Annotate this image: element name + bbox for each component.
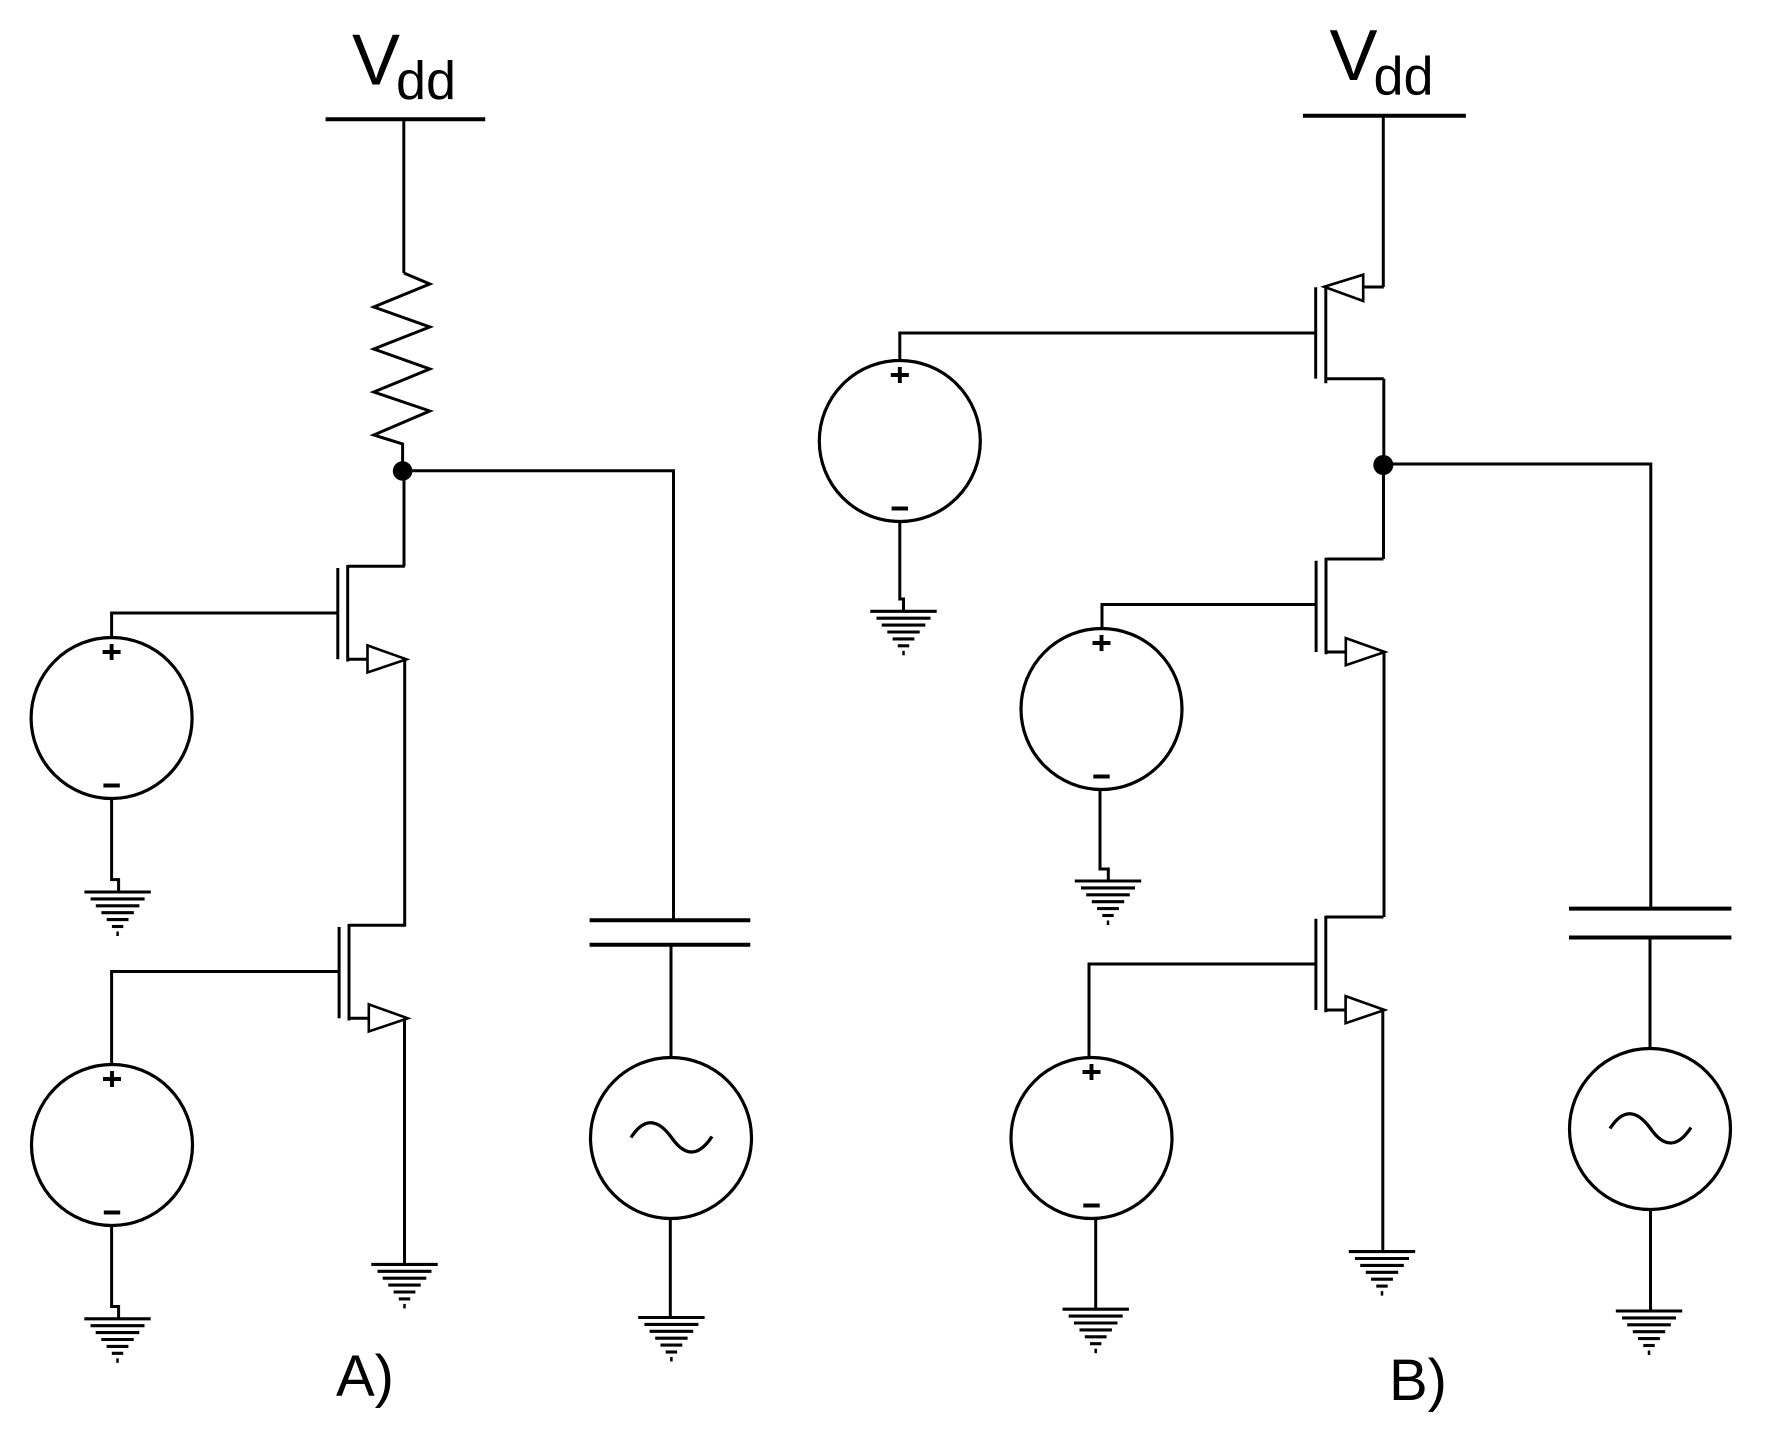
svg-text:dd: dd — [1374, 47, 1434, 107]
ground (vin A) — [638, 1318, 704, 1362]
wire output node to capacitor C2 — [1383, 464, 1651, 909]
ground (VSG) — [870, 611, 936, 655]
wire M2 source to ground — [403, 1018, 406, 1264]
power rail Vdd (circuit A) — [326, 117, 486, 121]
wire M5 source to ground — [1381, 1010, 1384, 1252]
voltage source VG1 — [31, 638, 192, 799]
wire M1 source to M2 drain — [403, 659, 406, 925]
power rail Vdd (circuit B) — [1303, 114, 1466, 118]
voltage source VG2 — [32, 1065, 193, 1226]
ground (VG4) — [1063, 1309, 1129, 1353]
voltage source VG3 — [1021, 629, 1182, 790]
wire output node to M4 drain — [1382, 465, 1385, 559]
wire M3 gate to VSG — [900, 333, 1316, 361]
ground (VG3) — [1075, 881, 1141, 925]
wire C2 to AC source vin — [1649, 938, 1652, 1049]
ground (M2 source) — [371, 1264, 437, 1308]
svg-text:dd: dd — [396, 51, 456, 111]
voltage source VSG — [819, 361, 980, 522]
transistor M5 (NMOS) — [1316, 916, 1385, 1024]
transistor M2 (NMOS) — [339, 924, 408, 1032]
wire M5 gate to VG4 — [1089, 964, 1316, 1058]
wire output node to M1 drain — [403, 471, 406, 566]
capacitor C2 — [1569, 907, 1731, 911]
ground (vin B) — [1616, 1311, 1682, 1355]
wire M4 gate to VG3 — [1102, 605, 1316, 629]
transistor M1 (NMOS) — [338, 565, 407, 673]
capacitor C1 — [590, 918, 751, 922]
svg-text:V: V — [352, 21, 400, 101]
wire Vdd rail to M3 source — [1382, 116, 1385, 287]
wire VG2 to ground — [112, 1226, 119, 1319]
wire vin to ground (circuit B) — [1649, 1210, 1652, 1312]
wire M2 gate to VG2 — [112, 972, 339, 1065]
wire output node to capacitor C1 — [403, 471, 674, 921]
node Vout (circuit B) — [1373, 455, 1393, 475]
ground (VG1) — [84, 892, 150, 936]
wire M3 drain to output node — [1382, 379, 1385, 465]
wire VSG to ground — [900, 522, 904, 612]
wire VG3 to ground — [1100, 789, 1108, 881]
wire vin to ground (circuit A) — [669, 1219, 672, 1318]
wire C1 to AC source vin — [670, 945, 673, 1058]
svg-text:A): A) — [336, 1344, 394, 1409]
transistor M4 (NMOS) — [1316, 558, 1385, 666]
wire M4 source to M5 drain — [1383, 652, 1386, 917]
node Vout (circuit A) — [393, 461, 413, 481]
wire VG4 to ground — [1094, 1218, 1097, 1310]
wire VG1 to ground — [112, 799, 119, 893]
AC source vin (circuit A) — [591, 1058, 752, 1219]
ground (M5 source) — [1349, 1252, 1415, 1296]
wire Vdd rail to resistor RD — [402, 119, 405, 273]
resistor RD (circuit A) — [374, 273, 430, 466]
wire M1 gate to VG1 — [112, 613, 338, 638]
voltage source VG4 — [1011, 1058, 1172, 1219]
svg-text:V: V — [1330, 16, 1378, 96]
AC source vin (circuit B) — [1570, 1049, 1731, 1210]
transistor M3 (PMOS) — [1316, 275, 1384, 384]
svg-text:B): B) — [1389, 1348, 1447, 1413]
ground (VG2) — [84, 1319, 150, 1363]
